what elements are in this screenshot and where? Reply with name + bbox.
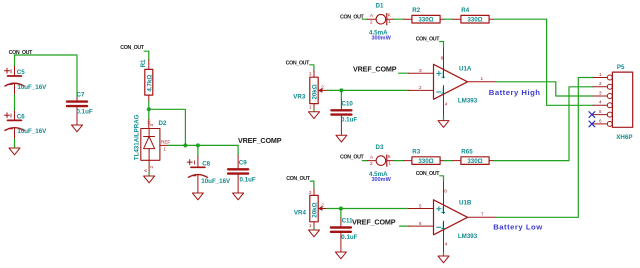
- svg-text:2: 2: [149, 166, 154, 169]
- capacitor C8: [187, 156, 231, 192]
- svg-text:C5: C5: [17, 69, 25, 76]
- node CON_OUT (section B label): [120, 45, 145, 51]
- svg-text:U1A: U1A: [459, 65, 472, 72]
- wire C11 tap: [340, 209, 342, 218]
- svg-text:3: 3: [599, 90, 602, 95]
- svg-text:7: 7: [481, 212, 484, 217]
- svg-text:Battery High: Battery High: [489, 88, 541, 97]
- wire C10 tap: [340, 90, 342, 99]
- svg-text:2: 2: [419, 85, 422, 90]
- ground under VR4: [309, 230, 320, 237]
- resistor R65: [453, 149, 494, 165]
- wire D1 to R2: [394, 18, 403, 20]
- svg-text:K: K: [388, 13, 392, 18]
- svg-text:330Ω: 330Ω: [418, 17, 433, 24]
- svg-text:1: 1: [164, 146, 167, 151]
- svg-text:4: 4: [445, 101, 448, 106]
- svg-text:4: 4: [445, 241, 448, 246]
- diode D3: [367, 144, 394, 183]
- capacitor C9: [228, 155, 256, 192]
- svg-text:CON_OUT: CON_OUT: [416, 37, 441, 43]
- svg-text:0.1uF: 0.1uF: [341, 234, 357, 241]
- pin 3 of P5: [593, 90, 612, 98]
- svg-text:C10: C10: [342, 100, 354, 107]
- wire VR4 wiper to U1B pin5: [327, 208, 409, 210]
- svg-text:330Ω: 330Ω: [467, 17, 482, 24]
- wire TL431 anode to ground: [148, 172, 150, 176]
- resistor R3: [404, 149, 445, 165]
- wire C8 tap: [197, 145, 199, 156]
- svg-text:5: 5: [599, 109, 602, 114]
- svg-text:C7: C7: [77, 92, 85, 99]
- node CON_OUT (D1 row): [340, 14, 365, 20]
- resistor R2: [404, 7, 445, 23]
- svg-text:2: 2: [321, 203, 324, 208]
- ground under C9: [233, 193, 244, 200]
- wire label to VR3: [310, 65, 314, 71]
- svg-text:LM393: LM393: [458, 98, 478, 105]
- junction below R1: [147, 107, 151, 111]
- wire R2 to R4: [444, 18, 452, 20]
- wire U1B pin4 to ground: [443, 253, 445, 256]
- svg-text:0.1uF: 0.1uF: [341, 117, 357, 124]
- ground under U1A: [438, 121, 449, 128]
- wire label to R1: [144, 51, 149, 60]
- wire label to VR4: [310, 181, 314, 189]
- svg-text:R1: R1: [140, 59, 147, 67]
- svg-text:3: 3: [309, 190, 312, 195]
- node CON_OUT (U1A power): [416, 37, 441, 43]
- svg-text:20kΩ: 20kΩ: [312, 84, 319, 99]
- svg-text:6: 6: [599, 118, 602, 123]
- regulator D2 TL431: [134, 114, 171, 172]
- svg-text:U1B: U1B: [459, 199, 472, 206]
- svg-text:A: A: [143, 168, 148, 172]
- svg-text:R4: R4: [461, 7, 469, 14]
- svg-text:330Ω: 330Ω: [467, 158, 482, 165]
- svg-text:20kΩ: 20kΩ: [312, 202, 319, 217]
- wire CON_OUT down to C5: [14, 55, 16, 66]
- svg-text:K: K: [388, 154, 392, 159]
- resistor R4: [453, 7, 494, 23]
- svg-text:10uF_16V: 10uF_16V: [17, 128, 47, 135]
- svg-text:0.1uF: 0.1uF: [77, 108, 93, 115]
- wire to C7: [76, 56, 78, 97]
- node VREF_COMP (U1A): [353, 64, 397, 73]
- svg-text:D1: D1: [376, 2, 384, 9]
- net Battery Low: [493, 222, 543, 231]
- svg-text:3: 3: [419, 68, 422, 73]
- capacitor C5: [5, 66, 48, 95]
- svg-text:TL431AILPRAG: TL431AILPRAG: [134, 114, 141, 160]
- svg-text:0.1uF: 0.1uF: [240, 176, 256, 183]
- svg-text:1: 1: [388, 19, 391, 24]
- wire R3 to R65: [444, 160, 452, 162]
- node CON_OUT (U1B power): [416, 171, 441, 177]
- no-connect X pin 5: [589, 112, 595, 118]
- svg-text:VREF_COMP: VREF_COMP: [238, 136, 282, 145]
- svg-text:8: 8: [441, 55, 444, 60]
- svg-text:D3: D3: [376, 144, 384, 151]
- wire VREF_COMP to U1B pin6: [400, 225, 409, 227]
- node CON_OUT (VR4 label): [286, 176, 311, 182]
- svg-text:C8: C8: [202, 160, 210, 167]
- ground under C11: [335, 252, 346, 259]
- pin 1 of P5: [593, 72, 612, 80]
- pin 6 of P5: [593, 118, 612, 126]
- svg-text:8: 8: [444, 189, 447, 194]
- op-amp U1B LM393: [409, 181, 497, 253]
- wire VREF_COMP to U1A pin3: [399, 72, 409, 74]
- wire D3 to R3: [394, 160, 403, 162]
- svg-text:5: 5: [419, 203, 422, 208]
- ground under C10: [336, 135, 347, 142]
- junction C11: [339, 207, 343, 211]
- net Battery High: [489, 88, 541, 97]
- svg-text:300mW: 300mW: [372, 36, 392, 42]
- svg-text:10uF_16V: 10uF_16V: [17, 84, 47, 91]
- wire CON_OUT horizontal to C7: [15, 54, 78, 56]
- svg-text:CON_OUT: CON_OUT: [416, 171, 441, 177]
- wire C5 to C6: [14, 95, 16, 111]
- ground under C7: [72, 125, 83, 132]
- no-connect X pin 6: [589, 121, 595, 127]
- svg-text:VR4: VR4: [294, 210, 307, 217]
- svg-text:1: 1: [599, 72, 602, 77]
- svg-text:2: 2: [370, 20, 373, 25]
- svg-text:A: A: [370, 13, 374, 18]
- wire label to D1: [362, 18, 367, 20]
- svg-text:R2: R2: [412, 7, 420, 14]
- svg-text:4.7kΩ: 4.7kΩ: [146, 75, 153, 92]
- junction C10: [339, 88, 343, 92]
- wire VR3 to ground: [313, 109, 315, 111]
- svg-text:A: A: [370, 154, 374, 159]
- capacitor C10: [331, 100, 357, 135]
- capacitor C7: [67, 92, 93, 125]
- svg-text:330Ω: 330Ω: [418, 158, 433, 165]
- capacitor C11: [331, 218, 358, 252]
- wire label to U1B pin8: [440, 176, 444, 181]
- ground under VR3: [309, 112, 320, 119]
- svg-text:6: 6: [419, 221, 422, 226]
- junction REF rail C8: [196, 143, 200, 147]
- ground under TL431: [144, 176, 155, 183]
- pin 4 of P5: [593, 100, 612, 108]
- svg-text:CON_OUT: CON_OUT: [120, 45, 145, 51]
- svg-text:1: 1: [388, 161, 391, 166]
- svg-text:10uF_16V: 10uF_16V: [201, 178, 231, 185]
- diode D1: [367, 2, 394, 41]
- svg-text:P5: P5: [617, 64, 625, 71]
- wire U1A output to connector pin 3: [496, 82, 593, 96]
- connector P5 XH6P: [612, 64, 632, 141]
- potentiometer VR4: [294, 189, 327, 228]
- svg-text:CON_OUT: CON_OUT: [340, 14, 365, 20]
- wire REF to C9/VREF_COMP: [237, 145, 239, 155]
- svg-text:REF: REF: [161, 140, 170, 145]
- svg-text:VREF_COMP: VREF_COMP: [352, 217, 396, 226]
- svg-text:1: 1: [309, 223, 312, 228]
- node VREF_COMP (section B): [238, 136, 282, 145]
- ground under C6: [9, 148, 20, 155]
- svg-text:VREF_COMP: VREF_COMP: [353, 64, 397, 73]
- wire U1B output to connector pin 1: [496, 78, 593, 218]
- svg-text:C9: C9: [239, 159, 247, 166]
- svg-text:300mW: 300mW: [372, 177, 392, 183]
- resistor R1: [140, 59, 154, 102]
- ground under C8: [192, 193, 203, 200]
- svg-text:2: 2: [599, 81, 602, 86]
- svg-text:R3: R3: [412, 149, 420, 156]
- svg-text:2: 2: [321, 85, 324, 90]
- svg-text:CON_OUT: CON_OUT: [286, 60, 311, 66]
- svg-text:XH6P: XH6P: [616, 134, 632, 141]
- node CON_OUT (VR3 label): [286, 60, 311, 66]
- pin 5 of P5: [593, 109, 612, 117]
- pin 2 of P5: [593, 81, 612, 89]
- svg-text:2: 2: [370, 161, 373, 166]
- wire label to D3: [362, 160, 367, 162]
- svg-text:C6: C6: [17, 114, 25, 121]
- wire VR4 to ground: [313, 227, 315, 229]
- svg-text:1: 1: [309, 105, 312, 110]
- capacitor C6: [5, 111, 48, 139]
- wire label to U1A pin8: [440, 42, 444, 47]
- wire VR3 wiper to U1A pin2: [327, 89, 409, 91]
- svg-text:VR3: VR3: [293, 94, 306, 101]
- svg-text:Battery Low: Battery Low: [493, 222, 543, 231]
- svg-text:LM393: LM393: [458, 233, 478, 240]
- op-amp U1A LM393: [409, 47, 497, 117]
- wire U1A pin4 to ground: [443, 117, 445, 120]
- svg-text:3: 3: [309, 72, 312, 77]
- wire C6 to ground: [14, 139, 16, 148]
- svg-text:3: 3: [149, 124, 154, 127]
- junction REF rail left: [183, 143, 187, 147]
- svg-text:1: 1: [481, 76, 484, 81]
- svg-text:D2: D2: [159, 120, 167, 127]
- wire R65 to connector pin 2: [494, 87, 593, 161]
- wire R1 to TL431: [148, 102, 150, 120]
- node VREF_COMP (U1B): [352, 217, 396, 226]
- svg-text:CON_OUT: CON_OUT: [286, 176, 311, 182]
- svg-text:4: 4: [599, 100, 602, 105]
- wire junction to REF rail: [149, 109, 186, 145]
- node CON_OUT (section A label): [9, 50, 34, 56]
- svg-text:CON_OUT: CON_OUT: [340, 154, 365, 160]
- ground under U1B: [438, 256, 449, 263]
- wire REF rail: [168, 144, 238, 146]
- node CON_OUT (D3 row): [340, 154, 365, 160]
- wire R4 to connector pin 4: [494, 19, 593, 105]
- potentiometer VR3: [293, 71, 327, 110]
- svg-text:R65: R65: [461, 149, 473, 156]
